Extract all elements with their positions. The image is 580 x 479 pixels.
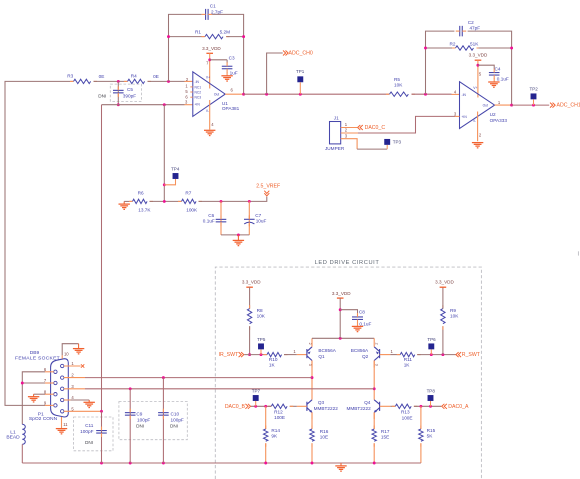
junction rail R17	[373, 462, 376, 465]
wire R7 to VREF	[199, 197, 267, 202]
svg-text:MMBT2222: MMBT2222	[314, 406, 339, 411]
ground P1 pin4	[84, 402, 95, 407]
svg-text:6: 6	[44, 367, 47, 372]
svg-text:Out: Out	[214, 92, 219, 96]
svg-text:DAC0_A: DAC0_A	[448, 404, 469, 410]
connector P1 pin 9 circle	[54, 404, 57, 407]
svg-text:C7: C7	[255, 213, 261, 218]
svg-text:Q2: Q2	[362, 354, 369, 359]
svg-text:1: 1	[185, 84, 188, 89]
svg-text:100E: 100E	[402, 415, 413, 420]
junction pin5 C11	[100, 410, 103, 413]
wire to C8	[340, 310, 357, 314]
pin stub P1 pin1	[64, 365, 81, 367]
wire C4 to ground	[493, 78, 495, 82]
svg-text:R_SWT: R_SWT	[462, 352, 481, 358]
resistor R2	[452, 46, 480, 50]
wire TP5 stub	[260, 349, 262, 354]
testpoint TP3	[384, 139, 390, 145]
svg-text:R11: R11	[404, 357, 413, 362]
wire Q4 base to R13	[390, 405, 395, 407]
svg-text:U2: U2	[490, 112, 496, 117]
svg-text:3.3_VDD: 3.3_VDD	[332, 291, 351, 296]
wire R1 row left	[169, 36, 205, 38]
svg-text:5K: 5K	[427, 434, 434, 439]
connector J1 body	[330, 122, 341, 144]
netflag DAC0_B chevrons	[245, 404, 250, 409]
wire R8 top stem	[249, 287, 251, 308]
wire to C3	[210, 59, 227, 61]
wire C2 right	[468, 31, 512, 105]
svg-text:V-: V-	[206, 109, 209, 113]
svg-text:R10: R10	[269, 357, 278, 362]
svg-text:TP3: TP3	[393, 139, 402, 144]
svg-text:+IN: +IN	[462, 115, 468, 119]
junction TP4 tee	[163, 183, 166, 186]
wire gnd to R6	[124, 200, 132, 202]
connector P1 pin 3 circle	[61, 387, 64, 390]
pin stub P1 pin8	[45, 393, 54, 395]
junction TP8	[429, 405, 432, 408]
ground P1 pin10	[73, 349, 84, 354]
svg-text:DAC0_C: DAC0_C	[365, 125, 386, 131]
wire R10 to Q1 base	[284, 354, 297, 356]
ground bottom rail	[335, 466, 346, 471]
wire pin10 ground stem	[78, 344, 80, 349]
pin stub P1 pin6	[45, 371, 54, 373]
wire C1 right to vertical	[212, 14, 244, 94]
pin stub P1 pin2	[64, 377, 85, 379]
svg-text:2: 2	[345, 128, 348, 133]
resistor R11	[397, 352, 421, 356]
wire TP8 stub	[430, 401, 432, 406]
svg-text:J1: J1	[334, 116, 339, 121]
svg-text:2.5_VREF: 2.5_VREF	[256, 183, 280, 189]
junction rail C11	[100, 462, 103, 465]
pin stub U1 V+	[209, 53, 211, 88]
resistor R12	[268, 404, 294, 408]
svg-text:C2: C2	[468, 20, 474, 25]
wire R2 row right	[479, 47, 512, 49]
svg-text:10uF: 10uF	[256, 219, 267, 224]
op-amp U1 internal labels	[195, 75, 220, 113]
connector P1 pin 7 circle	[54, 381, 57, 384]
netflag R_SWT chevrons	[456, 352, 461, 357]
resistor R3	[70, 79, 97, 83]
resistor R14	[264, 426, 268, 447]
wire P1 pin10 to ground	[62, 344, 78, 356]
pin stub J1 pin2	[341, 132, 358, 134]
svg-text:MMBT2222: MMBT2222	[346, 406, 371, 411]
wire bottom ground rail	[22, 462, 421, 464]
netflag DAC0_C chevrons	[358, 125, 363, 130]
netflag IR_SWT chevrons	[239, 352, 244, 357]
wire TP7 stub	[255, 401, 257, 406]
wire R8 bottom stem	[249, 326, 251, 354]
netflag ADC_CH1 chevrons	[550, 103, 555, 108]
wire U1 out to R5	[244, 93, 389, 95]
svg-text:TP7: TP7	[252, 389, 261, 394]
svg-text:2: 2	[71, 373, 74, 378]
resistor R7	[178, 199, 202, 203]
wire rail ground stem	[340, 463, 342, 466]
pin stub U2 -IN	[452, 93, 460, 95]
svg-text:IR_SWT: IR_SWT	[219, 352, 239, 358]
pin stub U1 +IN	[185, 104, 193, 106]
ground C6 C7	[233, 240, 244, 245]
wire R17 to rail	[373, 443, 375, 463]
svg-text:TP5: TP5	[257, 337, 266, 342]
svg-text:R1: R1	[195, 30, 201, 35]
svg-text:9: 9	[44, 401, 47, 406]
junction rail R14	[264, 462, 267, 465]
junction R6 R7 node	[163, 200, 166, 203]
wire emitter rail	[312, 337, 374, 339]
wire C8 to ground	[357, 323, 359, 327]
svg-text:R13: R13	[401, 410, 410, 415]
testpoint TP8	[428, 395, 434, 401]
capacitor C9	[125, 413, 136, 416]
junction TP6	[430, 353, 433, 356]
svg-text:3.3_VDD: 3.3_VDD	[202, 46, 221, 51]
ground U1	[204, 130, 215, 135]
svg-text:100K: 100K	[186, 208, 198, 213]
junction rail R16	[311, 462, 314, 465]
no-connect x pin1	[81, 364, 84, 367]
connector P1 pin 5 circle	[61, 410, 64, 413]
svg-text:8: 8	[44, 389, 47, 394]
junction ADC_CH0 tap	[265, 93, 268, 96]
junction rail C10	[162, 462, 165, 465]
junction TP1	[299, 93, 302, 96]
svg-text:2: 2	[308, 343, 312, 345]
svg-text:BC856A: BC856A	[318, 348, 336, 353]
resistor R10	[264, 352, 288, 356]
ground P1 pin8	[28, 397, 39, 402]
wire R1 row right	[227, 36, 244, 38]
svg-text:100pF: 100pF	[137, 418, 150, 423]
testpoint TP6	[428, 343, 434, 349]
pin stub P1 pin5	[64, 410, 102, 412]
resistor R6	[129, 199, 153, 203]
svg-text:R6: R6	[138, 190, 144, 195]
svg-text:DNI: DNI	[85, 440, 93, 445]
power 3.3_VDD U2	[475, 59, 482, 61]
capacitor C3	[222, 66, 233, 69]
wire R6 ground stem	[123, 201, 125, 204]
svg-text:C10: C10	[171, 412, 180, 417]
svg-text:TP2: TP2	[529, 87, 538, 92]
svg-text:3.3_VDD: 3.3_VDD	[242, 280, 261, 285]
transistor Q4 MMBT2222	[374, 400, 379, 413]
wire C3 to ground	[226, 72, 228, 76]
svg-text:R14: R14	[271, 428, 280, 433]
pin stub P1 pin4	[64, 399, 71, 401]
junction TP2	[532, 104, 535, 107]
svg-text:3: 3	[71, 384, 74, 389]
capacitor C4	[489, 73, 500, 76]
svg-text:10E: 10E	[320, 435, 328, 440]
junction rail C9	[129, 462, 132, 465]
svg-text:C9: C9	[136, 412, 142, 417]
wire branch to R6 node	[163, 105, 165, 202]
pin stub P1 pin11	[61, 417, 63, 429]
svg-text:1K: 1K	[269, 362, 276, 367]
svg-text:C8: C8	[359, 310, 365, 315]
wire long vertical to DB9 pin5	[101, 105, 103, 412]
resistor R4	[124, 79, 151, 83]
junction pin6 pin7	[21, 382, 24, 385]
svg-text:100E: 100E	[274, 415, 285, 420]
pin stubs U1 NC	[190, 87, 193, 97]
pin stub P1 pin9	[45, 404, 54, 406]
wire J1 pin3 to TP3	[357, 148, 387, 150]
svg-text:3: 3	[454, 111, 457, 116]
junction C5 bottom	[117, 103, 120, 106]
pin stub J1 pin1	[341, 127, 357, 129]
svg-text:LED DRIVE CIRCUIT: LED DRIVE CIRCUIT	[315, 260, 380, 266]
wire R12 to Q3 base	[290, 405, 297, 407]
pin stub Q2 base	[380, 354, 391, 356]
svg-text:R7: R7	[185, 190, 191, 195]
svg-text:10K: 10K	[450, 313, 459, 318]
wire pin4 ground stem	[88, 400, 90, 402]
svg-text:Out: Out	[483, 103, 488, 107]
svg-text:10K: 10K	[394, 82, 403, 87]
junction TP7	[254, 405, 257, 408]
svg-text:100pF: 100pF	[171, 418, 184, 423]
svg-text:0E: 0E	[153, 74, 159, 79]
pin stub P1 pin10	[61, 355, 63, 359]
op-amp U2 OPA333	[460, 82, 495, 129]
DNI box C11	[74, 417, 113, 451]
svg-text:3.3_VDD: 3.3_VDD	[469, 52, 488, 57]
ground C8	[352, 326, 363, 331]
junction C6 top	[220, 200, 223, 203]
connector P1 pin 2 circle	[61, 376, 64, 379]
junction rail VDD	[339, 337, 342, 340]
svg-text:6: 6	[185, 94, 188, 99]
power 3.3_VDD mid	[337, 297, 344, 299]
pin stub U2 V-	[477, 112, 479, 142]
svg-text:BEAD: BEAD	[6, 434, 20, 440]
junction C10 top	[162, 376, 165, 379]
svg-text:3.3_VDD: 3.3_VDD	[435, 280, 454, 285]
pin stub P1 pin3	[64, 388, 85, 390]
svg-text:OPA381: OPA381	[222, 106, 240, 111]
svg-text:15E: 15E	[381, 435, 389, 440]
svg-text:-IN: -IN	[462, 93, 467, 97]
svg-text:C4: C4	[495, 67, 501, 72]
svg-text:7: 7	[44, 378, 47, 383]
wire P1 pin6 to L1	[22, 372, 45, 425]
wire DAC0_B row	[251, 405, 271, 407]
resistor R9	[441, 305, 445, 330]
svg-text:390pF: 390pF	[123, 94, 136, 99]
svg-text:C3: C3	[229, 55, 235, 60]
junction C9 top	[129, 387, 132, 390]
wire U1 +IN run	[102, 104, 185, 106]
wire R4 to U1 -IN	[148, 80, 185, 82]
wire R6 to R7	[150, 200, 182, 202]
junction Q1 Q3 node	[311, 376, 314, 379]
svg-text:SpO2 CONN: SpO2 CONN	[29, 416, 58, 422]
svg-text:ADC_CH0: ADC_CH0	[289, 51, 313, 57]
resistor R16	[310, 426, 314, 447]
wire J1 pin2 to U2 +IN	[352, 116, 455, 133]
wire net IN- left rail	[5, 81, 74, 405]
pin stub U2 out	[495, 104, 512, 106]
svg-text:TP1: TP1	[296, 69, 305, 74]
svg-text:3: 3	[185, 100, 188, 105]
wire C3 down	[226, 60, 228, 63]
svg-text:V+: V+	[206, 75, 210, 79]
wire C6 vertical	[220, 201, 222, 235]
junction C7 top	[248, 200, 251, 203]
junction R2 right	[510, 47, 513, 50]
ground P1 pin11	[56, 429, 67, 434]
svg-text:0E: 0E	[99, 74, 105, 79]
pin stub U2 V+	[477, 60, 479, 97]
wire R14 stem	[265, 406, 267, 429]
capacitor C6	[216, 219, 227, 222]
svg-text:1K: 1K	[404, 363, 411, 368]
connector P1 pin 4 circle	[61, 398, 64, 401]
capacitor C7 polarized	[244, 219, 255, 224]
svg-text:C1: C1	[210, 3, 216, 8]
pin stub J1 pin3	[341, 139, 357, 149]
svg-text:R12: R12	[274, 410, 283, 415]
svg-text:R8: R8	[257, 308, 263, 313]
wire R15 to rail	[420, 443, 422, 463]
connector P1 pin 8 circle	[54, 393, 57, 396]
wire pin8 ground stem	[33, 394, 35, 397]
wire R16 to rail	[311, 443, 313, 463]
transistor Q2 BC856A	[374, 347, 379, 361]
resistor R13	[392, 404, 418, 408]
ground C4	[488, 82, 499, 87]
svg-text:1: 1	[391, 349, 394, 354]
wire R2 row left	[426, 47, 454, 49]
junction feedback at -IN	[167, 80, 170, 83]
wire TP2 stub	[533, 99, 535, 105]
testpoint TP4	[173, 173, 179, 179]
svg-text:2: 2	[375, 343, 379, 345]
svg-text:R15: R15	[427, 428, 436, 433]
ground R6	[119, 204, 130, 209]
capacitor C10	[158, 413, 169, 416]
svg-text:2: 2	[479, 133, 482, 138]
LED drive circuit dashed box	[215, 267, 481, 479]
wire C7 vertical	[248, 201, 250, 235]
svg-text:DNI: DNI	[98, 93, 106, 98]
testpoint TP1	[297, 76, 303, 82]
svg-text:100pF: 100pF	[80, 429, 93, 434]
pin stub U1 out	[225, 93, 243, 95]
svg-text:DAC0_B: DAC0_B	[225, 404, 246, 410]
capacitor C5	[113, 90, 124, 93]
junction R8 IR_SWT	[248, 353, 251, 356]
wire Q2 collector to Q4	[373, 361, 375, 400]
resistor R15	[419, 426, 423, 447]
svg-text:10: 10	[64, 351, 69, 356]
svg-text:6: 6	[231, 88, 234, 93]
wire Q1 collector to Q3	[311, 361, 313, 400]
svg-text:DNI: DNI	[136, 424, 144, 429]
wire U2 out	[512, 104, 550, 106]
svg-text:C5: C5	[127, 87, 133, 92]
svg-text:V-: V-	[473, 119, 476, 123]
svg-text:V+: V+	[473, 86, 477, 90]
svg-text:C11: C11	[85, 423, 94, 428]
svg-text:2.7pF: 2.7pF	[211, 9, 223, 14]
svg-text:11: 11	[63, 422, 68, 427]
wire R11 to R_SWT	[417, 354, 456, 356]
svg-text:BC856A: BC856A	[351, 348, 369, 353]
wire feedback left vertical	[169, 14, 202, 81]
testpoint TP2	[531, 93, 537, 99]
svg-text:JUMPER: JUMPER	[325, 146, 345, 151]
wire C10 vertical	[162, 378, 164, 463]
junction R9 R_SWT	[441, 353, 444, 356]
op-amp U1 OPA381	[193, 72, 225, 117]
junction C5 top	[117, 80, 120, 83]
pin stub U1 -IN	[185, 80, 193, 82]
svg-text:R2: R2	[450, 42, 456, 47]
junction R2 left	[424, 47, 427, 50]
svg-text:Q3: Q3	[318, 400, 325, 405]
pin stub Q1 base	[297, 354, 307, 356]
pin stub Q4 base	[380, 405, 391, 407]
svg-text:1: 1	[71, 361, 74, 366]
wire C6 C7 bottom	[221, 234, 249, 236]
wire Q3 emitter to R16	[311, 412, 313, 429]
svg-text:1: 1	[498, 100, 501, 105]
svg-text:FEMALE SOCKET: FEMALE SOCKET	[15, 355, 60, 361]
wire C9 vertical	[129, 389, 131, 463]
svg-text:3: 3	[308, 364, 312, 366]
svg-text:DB9: DB9	[30, 350, 40, 356]
svg-text:9K: 9K	[271, 434, 278, 439]
junction C3 tap	[208, 58, 211, 61]
netflag 2.5_VREF chevron	[264, 191, 269, 196]
wire R9 bottom stem	[442, 326, 444, 354]
junction C4 tap	[476, 64, 479, 67]
connector P1 pin 1 circle	[61, 364, 64, 367]
capacitor C2	[460, 26, 463, 36]
netflag ADC_CH0 chevrons	[283, 51, 288, 56]
svg-text:5: 5	[185, 89, 188, 94]
junction R15	[419, 405, 422, 408]
svg-text:13.7K: 13.7K	[138, 208, 151, 213]
resistor R1	[202, 34, 230, 38]
svg-text:R17: R17	[381, 429, 390, 434]
svg-text:R16: R16	[320, 429, 329, 434]
resistor R17	[372, 426, 376, 447]
capacitor C8	[352, 317, 363, 320]
wire TP1 stub	[299, 82, 301, 94]
svg-text:5: 5	[479, 71, 482, 76]
wire R14 to rail	[265, 443, 267, 463]
svg-text:NC1: NC1	[195, 85, 202, 89]
svg-text:-IN: -IN	[195, 80, 200, 84]
junction C8 tap	[339, 308, 342, 311]
svg-text:4: 4	[454, 89, 457, 94]
svg-text:1: 1	[293, 349, 296, 354]
wire R5 to U2 -IN	[412, 93, 452, 95]
svg-text:ADC_CH1: ADC_CH1	[557, 103, 580, 109]
wire C11 vertical	[101, 411, 103, 463]
